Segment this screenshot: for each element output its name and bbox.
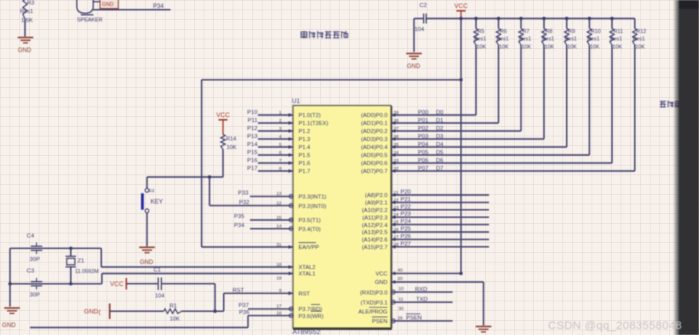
svg-text:D1: D1 (436, 118, 443, 124)
svg-text:P3.7(RD): P3.7(RD) (299, 307, 323, 313)
svg-text:(A10)P2.2: (A10)P2.2 (362, 208, 388, 214)
svg-text:EA/VPP: EA/VPP (299, 245, 320, 251)
svg-text:PSEN: PSEN (372, 319, 388, 325)
net label PSEN (406, 314, 422, 322)
svg-text:P1.1(T2EX): P1.1(T2EX) (299, 121, 329, 127)
svg-text:P23: P23 (401, 212, 411, 218)
net label P35 (234, 214, 244, 220)
wire C2 to GND (414, 19, 424, 53)
svg-text:P12: P12 (247, 126, 257, 132)
svg-text:P07: P07 (418, 166, 428, 172)
svg-text:KEY: KEY (151, 199, 163, 206)
svg-text:TXD: TXD (416, 297, 428, 303)
wire GND pin 20 (391, 276, 484, 325)
svg-text:(A15)P2.7: (A15)P2.7 (362, 245, 388, 251)
svg-text:P11: P11 (248, 118, 258, 124)
svg-text:CSDN @qq_2083558048: CSDN @qq_2083558048 (548, 320, 682, 332)
svg-text:AT89S52: AT89S52 (293, 329, 321, 335)
wire R1 to junction (182, 310, 217, 313)
svg-text:GND: GND (375, 280, 388, 286)
pin connection arrowheads (289, 113, 396, 295)
wire P34 to pin 14 (250, 227, 293, 231)
svg-text:(AD5)P0.5: (AD5)P0.5 (361, 153, 388, 159)
svg-text:(A8)P2.0: (A8)P2.0 (365, 193, 387, 199)
wire P36 net bottom run (30, 316, 248, 328)
svg-text:104: 104 (155, 294, 164, 300)
svg-text:R8: R8 (546, 29, 553, 35)
svg-text:P34: P34 (234, 223, 245, 229)
resistor R10 (10K pull-up) (587, 17, 601, 155)
svg-text:30P: 30P (30, 293, 40, 299)
svg-text:RST: RST (233, 288, 245, 294)
wire XTAL1 pin 19 (102, 274, 293, 284)
svg-text:10K: 10K (545, 45, 555, 51)
power port VCC (top) (454, 3, 468, 19)
title 单片机最小系统 (300, 31, 347, 38)
svg-text:GND: GND (18, 48, 32, 54)
svg-text:P17: P17 (247, 166, 257, 172)
svg-text:P1.7: P1.7 (299, 169, 311, 175)
svg-text:U1: U1 (292, 98, 300, 105)
svg-text:P05: P05 (418, 150, 428, 156)
svg-text:10K: 10K (170, 317, 180, 323)
resistor R7 (10K pull-up) (519, 17, 532, 131)
svg-text:19: 19 (276, 275, 282, 280)
svg-text:Res1: Res1 (497, 37, 509, 43)
svg-text:D0: D0 (436, 110, 443, 116)
svg-text:P1.0(T2): P1.0(T2) (299, 113, 321, 119)
svg-text:29: 29 (398, 315, 404, 320)
note 上拉电阻 (660, 101, 689, 108)
svg-text:(A13)P2.5: (A13)P2.5 (362, 230, 388, 236)
capacitor C2 (104) (415, 3, 427, 33)
net label P36 (239, 310, 249, 316)
svg-text:10K: 10K (227, 145, 237, 151)
wire P37 to pin 17 (248, 307, 293, 311)
svg-text:(AD3)P0.3: (AD3)P0.3 (361, 137, 388, 143)
svg-text:(AD6)P0.6: (AD6)P0.6 (361, 161, 388, 167)
svg-text:(A11)P2.3: (A11)P2.3 (362, 215, 387, 221)
svg-text:P13: P13 (247, 134, 257, 140)
wire PSEN pin 29 (391, 315, 453, 323)
svg-text:30P: 30P (30, 257, 40, 263)
svg-text:Res1: Res1 (474, 37, 486, 43)
svg-text:ALE/PROG: ALE/PROG (358, 310, 387, 316)
svg-text:10K: 10K (635, 45, 645, 51)
svg-text:VCC: VCC (375, 272, 387, 278)
svg-text:R10: R10 (591, 29, 601, 35)
op-chip U1 AT89S52 body (292, 98, 392, 329)
resistor R12 (10K pull-up) (633, 19, 647, 172)
svg-text:P14: P14 (247, 142, 258, 148)
svg-text:7: 7 (279, 158, 282, 163)
svg-text:Z1: Z1 (78, 259, 85, 265)
svg-text:Res1: Res1 (519, 37, 531, 43)
svg-text:P36: P36 (239, 310, 249, 316)
power port VCC (reset) (110, 278, 126, 290)
svg-text:GND: GND (2, 322, 16, 329)
svg-text:(RXD)P3.0: (RXD)P3.0 (360, 290, 388, 296)
svg-text:R6: R6 (500, 29, 507, 35)
svg-text:VCC: VCC (216, 112, 230, 119)
svg-text:13: 13 (276, 191, 282, 196)
svg-text:P20: P20 (401, 190, 411, 196)
resistor R3 (1.5K) (20, 0, 34, 37)
svg-text:RST: RST (299, 292, 311, 298)
ground below R3 (18, 38, 34, 55)
svg-text:P10: P10 (247, 110, 257, 116)
pin 30 ALE number (399, 306, 405, 311)
svg-text:P3.4(T0): P3.4(T0) (299, 227, 321, 233)
svg-text:16: 16 (276, 310, 282, 315)
svg-text:30: 30 (399, 306, 405, 311)
svg-text:5: 5 (279, 142, 282, 147)
resistor R1 (10K) (164, 304, 182, 323)
svg-text:P26: P26 (401, 234, 411, 240)
svg-text:(AD4)P0.4: (AD4)P0.4 (361, 145, 388, 151)
svg-text:(AD0)P0.0: (AD0)P0.0 (361, 113, 388, 119)
svg-text:11.0592M: 11.0592M (75, 269, 99, 275)
ground bottom-right (476, 327, 492, 332)
svg-text:6: 6 (279, 150, 282, 155)
svg-text:2: 2 (279, 118, 282, 123)
svg-text:D5: D5 (436, 150, 443, 156)
svg-text:P35: P35 (234, 214, 244, 220)
svg-text:VCC: VCC (454, 3, 468, 10)
svg-text:(TXD)P3.1: (TXD)P3.1 (361, 300, 388, 306)
svg-text:P3.3(INT1): P3.3(INT1) (299, 195, 327, 201)
svg-text:Res1: Res1 (610, 37, 622, 43)
svg-text:R7: R7 (523, 29, 530, 35)
chip left pin names (299, 113, 329, 320)
VCC rail wire (426, 18, 635, 20)
svg-text:20: 20 (398, 276, 404, 281)
svg-text:P32: P32 (239, 200, 249, 206)
svg-text:P37: P37 (239, 303, 249, 309)
svg-text:SPEAKER: SPEAKER (77, 18, 103, 24)
svg-text:10K: 10K (613, 45, 623, 51)
svg-text:XTAL2: XTAL2 (299, 265, 316, 271)
wire RXD pin 10 (391, 286, 453, 294)
push button S2 KEY (141, 177, 163, 246)
svg-text:(A14)P2.6: (A14)P2.6 (362, 238, 388, 244)
wire junction to P3.2 pin (209, 177, 211, 206)
wire GND port to R1 (110, 310, 164, 312)
svg-text:XTAL1: XTAL1 (299, 272, 316, 278)
wire VCC to C1 (126, 283, 157, 285)
svg-text:3: 3 (279, 126, 282, 131)
svg-text:P1.6: P1.6 (299, 161, 311, 167)
svg-text:P00: P00 (418, 110, 428, 116)
wire RST to pin 9 (215, 288, 293, 311)
resistor R14 (10K) (221, 135, 237, 178)
chip right pin names (358, 113, 387, 325)
svg-text:P22: P22 (401, 204, 411, 210)
svg-text:D4: D4 (436, 142, 444, 148)
svg-text:R12: R12 (636, 29, 646, 35)
wire EA pin 31 to VCC vertical (202, 80, 461, 247)
resistor R6 (10K pull-up) (496, 17, 509, 123)
svg-text:P34: P34 (153, 4, 164, 10)
right dark band (673, 0, 699, 335)
svg-text:P27: P27 (401, 241, 411, 247)
svg-text:Res1: Res1 (587, 37, 599, 43)
capacitor C4 (30P) (27, 234, 42, 264)
net label RXD (415, 287, 427, 293)
ground bottom-left (2, 308, 20, 329)
svg-text:11: 11 (399, 296, 404, 301)
svg-text:10K: 10K (499, 45, 509, 51)
svg-text:R14: R14 (226, 137, 236, 143)
pin numbers 15 14 (276, 215, 282, 229)
svg-text:P16: P16 (247, 158, 257, 164)
svg-text:C3: C3 (27, 269, 34, 275)
resistor R11 (10K pull-up) (610, 17, 623, 163)
wire speaker to net P34 (93, 9, 170, 11)
wire P32 to pin 12 (210, 204, 294, 208)
net label P32 (239, 200, 249, 206)
wire P36 to pin 16 (248, 314, 293, 318)
svg-text:Res1: Res1 (20, 9, 33, 15)
svg-text:4: 4 (279, 134, 282, 139)
svg-text:GND: GND (407, 64, 421, 70)
svg-text:15: 15 (276, 215, 282, 220)
ground below key (139, 247, 155, 266)
svg-text:P04: P04 (418, 142, 429, 148)
svg-text:GND: GND (84, 309, 99, 316)
svg-text:P03: P03 (418, 134, 428, 140)
svg-text:14: 14 (276, 224, 282, 229)
wires P2.0-P2.7 (pins 21-28) (391, 190, 489, 248)
wire R14 / key junction (147, 175, 223, 178)
power port GND (reset) (84, 304, 110, 320)
svg-text:P25: P25 (401, 227, 411, 233)
svg-text:104: 104 (415, 27, 425, 33)
wire P33 to pin 13 (250, 194, 293, 198)
svg-text:(A12)P2.4: (A12)P2.4 (362, 223, 388, 229)
chip name AT89S52 (293, 329, 321, 335)
svg-text:1.5K: 1.5K (21, 18, 33, 24)
speaker LS1 (cut off at top) (77, 0, 103, 24)
svg-text:Res1: Res1 (565, 37, 577, 43)
wires P10-P17 with net labels and pin numbers 1-8 (247, 110, 293, 172)
resistor R8 (10K pull-up) (542, 17, 555, 139)
net label P33 (238, 191, 248, 197)
svg-text:Res1: Res1 (542, 37, 554, 43)
resistor R5 (10K pull-up) (474, 17, 487, 115)
svg-text:P3.2(INT0): P3.2(INT0) (299, 204, 327, 210)
svg-text:P06: P06 (418, 158, 428, 164)
svg-text:10K: 10K (477, 45, 487, 51)
svg-text:RXD: RXD (415, 287, 427, 293)
svg-text:(AD2)P0.2: (AD2)P0.2 (361, 129, 388, 135)
svg-text:P1.4: P1.4 (299, 145, 311, 151)
net label RST (233, 288, 245, 294)
svg-text:D7: D7 (436, 166, 443, 172)
svg-text:D6: D6 (436, 158, 443, 164)
port P-GND on speaker (93, 0, 118, 9)
crystal Z1 11.0592M (66, 248, 100, 283)
wires P0.0-P0.7 data bus D0-D7 (pins 39-32) (391, 110, 635, 172)
svg-text:GND: GND (140, 260, 154, 266)
VCC vertical wire to pin 40 (391, 17, 463, 275)
wire P35 to pin 15 (250, 218, 293, 222)
capacitor C1 (104) (154, 268, 165, 300)
left ground rail (9, 248, 11, 306)
svg-text:Res1: Res1 (633, 37, 645, 43)
svg-text:PSEN: PSEN (406, 315, 422, 321)
svg-text:C2: C2 (420, 3, 427, 9)
wire crystal bottom (8, 282, 102, 285)
svg-text:(AD1)P0.1: (AD1)P0.1 (361, 121, 388, 127)
svg-text:D3: D3 (436, 134, 443, 140)
svg-text:12: 12 (276, 200, 282, 205)
svg-text:17: 17 (276, 304, 282, 309)
svg-text:R3: R3 (27, 1, 34, 7)
svg-text:VCC: VCC (110, 281, 124, 288)
svg-text:P1.3: P1.3 (299, 137, 311, 143)
svg-text:P02: P02 (418, 126, 428, 132)
svg-text:C4: C4 (27, 234, 35, 240)
net label P34 (153, 4, 164, 10)
pin numbers 13 12 (276, 191, 282, 205)
svg-text:P3.6(WR): P3.6(WR) (299, 314, 324, 320)
svg-text:P15: P15 (247, 150, 257, 156)
svg-text:P01: P01 (418, 118, 428, 124)
svg-text:P21: P21 (401, 197, 411, 203)
net label P34 (T0) (234, 223, 245, 229)
wire C1 to reset junction (161, 284, 215, 312)
svg-text:D2: D2 (436, 126, 443, 132)
svg-text:R9: R9 (568, 29, 575, 35)
svg-text:(AD7)P0.7: (AD7)P0.7 (361, 169, 388, 175)
svg-text:R5: R5 (478, 29, 485, 35)
wire TXD pin 11 (391, 296, 453, 304)
resistor R9 (10K pull-up) (565, 17, 578, 147)
svg-text:R1: R1 (170, 304, 177, 310)
svg-text:9: 9 (279, 288, 282, 293)
svg-text:1: 1 (279, 110, 282, 115)
wire XTAL2 pin 18 (101, 248, 293, 267)
ground below C2 (406, 54, 422, 71)
net label TXD (416, 297, 428, 303)
svg-text:10K: 10K (567, 45, 577, 51)
watermark CSDN (548, 320, 682, 332)
net label P37 (239, 303, 249, 309)
svg-text:P33: P33 (238, 191, 248, 197)
svg-text:10K: 10K (590, 45, 600, 51)
svg-text:P3.5(T1): P3.5(T1) (299, 218, 321, 224)
svg-text:P24: P24 (401, 219, 412, 225)
wire crystal top (10, 247, 101, 250)
svg-text:40: 40 (398, 268, 404, 273)
svg-text:R11: R11 (614, 29, 624, 35)
svg-text:10K: 10K (522, 45, 532, 51)
svg-text:8: 8 (279, 166, 282, 171)
svg-text:S2: S2 (149, 188, 155, 194)
svg-text:GND: GND (102, 2, 114, 8)
capacitor C3 (30P) (27, 269, 42, 299)
pin 40 VCC number (398, 268, 404, 273)
pin numbers 17 16 (276, 304, 282, 316)
svg-text:10: 10 (399, 286, 405, 291)
power port VCC (key pull-up R14) (216, 112, 230, 135)
svg-text:P1.2: P1.2 (299, 129, 311, 135)
svg-text:31: 31 (276, 242, 282, 247)
svg-text:C1: C1 (154, 268, 161, 274)
svg-text:(A9)P2.1: (A9)P2.1 (365, 201, 387, 207)
svg-text:18: 18 (276, 262, 282, 267)
svg-text:P1.5: P1.5 (299, 153, 311, 159)
